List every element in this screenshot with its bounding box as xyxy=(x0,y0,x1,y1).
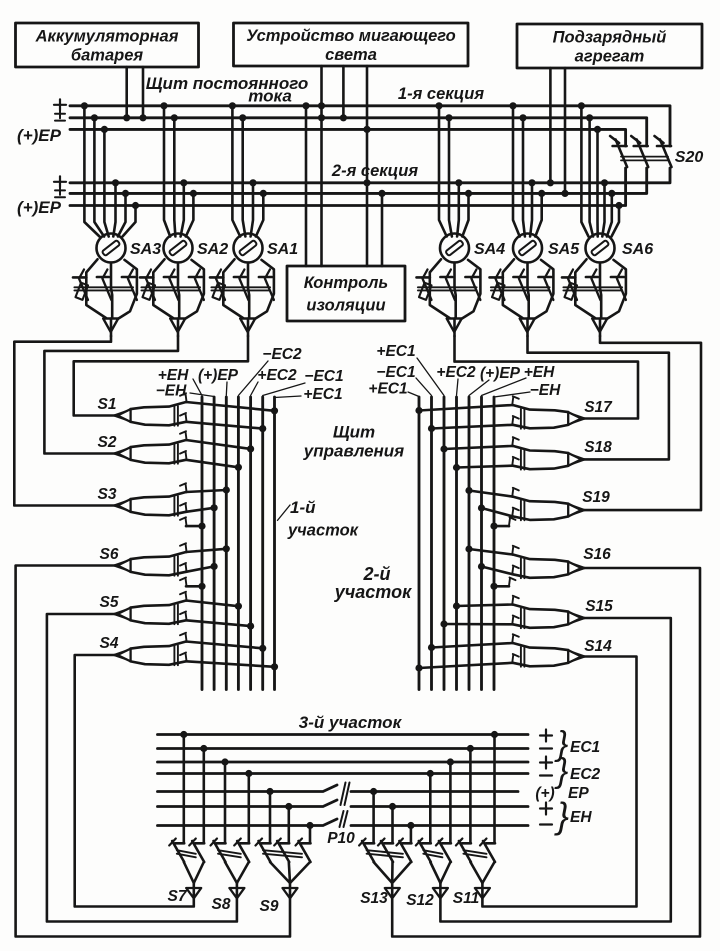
cable mark S16 xyxy=(521,559,525,579)
leader -EC1 left xyxy=(263,383,305,396)
wire S8 pole tap to 3rd-section line 3 xyxy=(221,758,228,842)
label S3 xyxy=(98,486,117,503)
svg-text:3-й участок: 3-й участок xyxy=(299,713,403,732)
svg-text:S16: S16 xyxy=(583,546,611,563)
switch S20 (3-pole changeover between sections) xyxy=(610,136,671,167)
wire SA1 pole 4 from bus y=193 xyxy=(256,190,267,237)
wire S7 pole tap to 3rd-section line 2 xyxy=(200,745,207,843)
feeder arrow S6 xyxy=(114,559,131,572)
leader 1-й участок xyxy=(278,505,291,520)
wire S5 upper conductor to panel bus xyxy=(180,592,242,610)
S11 arrow xyxy=(475,888,490,898)
svg-text:SA5: SA5 xyxy=(548,241,580,258)
svg-text:S8: S8 xyxy=(212,896,231,913)
label SA3 xyxy=(130,241,161,258)
wire SA3 pole 1 from bus y=106 xyxy=(81,102,100,236)
net label +EC2 xyxy=(257,367,297,384)
label (+) EP xyxy=(535,785,589,802)
svg-text:Р10: Р10 xyxy=(327,830,355,847)
wire S12 pole tap to 3rd-section line 3 xyxy=(447,758,454,842)
caption Щит управления xyxy=(303,423,404,461)
wire S9 pole tap to 3rd-section line 7 xyxy=(306,822,313,843)
label S11 xyxy=(453,890,479,907)
wire SA2 pole 4 from bus y=193 xyxy=(186,190,197,237)
label S5 xyxy=(100,594,119,611)
net label -EC1 right xyxy=(376,364,415,381)
leader +EC2 xyxy=(251,382,258,396)
polarity marks EH xyxy=(540,803,552,825)
bus wire: 2nd section panel vertical 1 xyxy=(418,397,421,690)
wire S16 upper conductor to panel bus xyxy=(465,545,518,554)
cable mark S3 xyxy=(174,496,178,516)
S13 pole contact xyxy=(378,839,393,863)
wire S11 outlet xyxy=(482,657,636,907)
cable mark S18 xyxy=(521,450,525,470)
feeder arrow S1 xyxy=(114,409,131,422)
wire SA3 pole 6 from bus y=206 xyxy=(123,202,140,237)
label SA5 xyxy=(548,241,580,258)
svg-text:S7: S7 xyxy=(168,888,188,905)
wire SA3 pole 5 from bus y=193 xyxy=(118,190,129,237)
leader (+)EP xyxy=(225,382,228,396)
selector switch SA1 xyxy=(210,234,274,337)
net label (+)EP section-2 xyxy=(17,198,62,217)
S14 pennant outline xyxy=(513,643,568,666)
leader +EH right xyxy=(482,378,527,396)
wire SA6 pole 4 from bus y=183 xyxy=(601,179,608,236)
bus wire: 1st section panel vertical 1 xyxy=(201,397,204,690)
bus wire: 1st section panel vertical 7 xyxy=(273,397,276,690)
bus wire: 3rd section line 6 (EH +) left segment xyxy=(158,800,338,807)
label S9 xyxy=(260,898,279,915)
wire SA6 pole 6 from bus y=206 xyxy=(612,202,623,237)
net label +EH xyxy=(158,367,189,384)
bus wire: 3rd section line 7 (EH -) left segment xyxy=(158,819,338,826)
net label -EC1 left xyxy=(304,368,343,385)
stub tap on -EH right vertical at y526 xyxy=(490,517,515,529)
wire SA2 pole 2 from bus y=118 xyxy=(171,114,178,236)
bus wire: 2nd section panel vertical 4 xyxy=(455,397,458,690)
wire SA5 pole 4 from bus y=193 xyxy=(535,190,545,237)
bus wire: 3rd section line 5 (EP (+)) left segment xyxy=(158,785,338,792)
wire battery lead 2 to section-1 line 2 xyxy=(139,67,146,121)
bus wire: 3rd section line 3 (EC2 +) xyxy=(158,761,529,764)
label S7 xyxy=(168,888,188,905)
S9 pole contact xyxy=(296,839,311,863)
wire flasher lead 1 down to insulation monitor xyxy=(318,66,325,266)
leader +EC1 right top xyxy=(417,358,444,396)
S7 arrow xyxy=(186,888,201,898)
stub tap on +EH vertical at y586 xyxy=(180,578,206,590)
bus wire: 3rd section line 5 (EP (+)) right segment xyxy=(351,790,518,793)
wire SA6 outlet loop to S19 xyxy=(580,336,701,510)
svg-text:2-й: 2-й xyxy=(363,564,391,584)
S13 funnel xyxy=(367,850,411,883)
svg-text:−ЕС1: −ЕС1 xyxy=(304,368,343,385)
bus wire: 1st section panel vertical 2 xyxy=(213,397,216,690)
svg-text:S9: S9 xyxy=(260,898,279,915)
svg-text:−ЕН: −ЕН xyxy=(156,383,187,400)
svg-text:Подзарядный: Подзарядный xyxy=(553,29,667,47)
leader +EC1 left xyxy=(275,396,302,398)
wire SA3 pole 4 from bus y=183 xyxy=(112,179,119,236)
wire SA5 pole 3 from bus y=183 xyxy=(528,179,535,236)
svg-text:(+): (+) xyxy=(535,785,554,802)
S13 arrow xyxy=(385,888,400,898)
wire S6 upper conductor to panel bus xyxy=(180,543,230,552)
svg-text:Щит: Щит xyxy=(333,423,375,442)
svg-text:SA3: SA3 xyxy=(130,241,161,258)
S12 pole contact xyxy=(436,839,451,863)
leader -EC1 right xyxy=(416,378,432,396)
selector switch SA5 xyxy=(490,234,554,337)
wire flasher lead 3 to insulation monitor xyxy=(363,66,370,266)
net label +EC2 right xyxy=(436,364,476,381)
S7 pole contact xyxy=(189,839,204,863)
bus wire: section-2 line 3 (+)EP, bends up to S20 pole 1 xyxy=(70,168,626,206)
wire SA3 outlet loop to S3 xyxy=(14,336,117,506)
net label +EC1 left xyxy=(303,386,342,403)
caption 2-я секция xyxy=(331,162,418,180)
wire S3 upper conductor to panel bus xyxy=(180,483,230,493)
svg-text:Аккумуляторная: Аккумуляторная xyxy=(35,28,179,46)
S12 arrow xyxy=(433,888,448,898)
wire SA3 pole 3 from bus y=129 xyxy=(101,126,109,237)
caption 3-й участок xyxy=(299,713,403,732)
svg-text:+ЕН: +ЕН xyxy=(158,367,189,384)
svg-text:+ЕС1: +ЕС1 xyxy=(368,381,407,398)
S3 pennant outline xyxy=(131,492,186,515)
svg-text:SA1: SA1 xyxy=(267,241,298,258)
label S13 xyxy=(360,890,388,907)
svg-text:Контроль: Контроль xyxy=(304,274,388,292)
wire S1 upper conductor to panel bus xyxy=(180,393,278,414)
label P10 xyxy=(327,830,355,847)
caption Щит постоянного тока xyxy=(146,74,309,106)
wire S13 outlet xyxy=(392,568,700,937)
bus wire: 3rd section line 2 (EC1 -) xyxy=(158,747,529,750)
label SA2 xyxy=(197,241,228,258)
wire S4 upper conductor to panel bus xyxy=(180,633,266,652)
bus wire: section-1 line 3 (+)EP, bends down to S20 pole 1 xyxy=(70,129,626,146)
leader (+)EP right xyxy=(469,380,489,396)
wire charger lead 1 to section-2 line 1 xyxy=(547,68,554,186)
wire S2 upper conductor to panel bus xyxy=(180,431,254,452)
svg-text:S19: S19 xyxy=(582,489,610,506)
battery box (Аккумуляторная батарея) xyxy=(16,23,199,67)
svg-text:(+)ЕР: (+)ЕР xyxy=(480,365,521,382)
net label +EC1 right top xyxy=(376,343,415,360)
svg-text:управления: управления xyxy=(303,442,404,461)
feeder arrow S4 xyxy=(114,649,131,662)
bus wire: section-2 line 1 (+), bends up to S20 pole 3 xyxy=(70,168,670,183)
wire SA1 outlet loop to S1 xyxy=(74,336,248,416)
svg-text:SA6: SA6 xyxy=(622,241,653,258)
S12 funnel xyxy=(423,850,450,883)
svg-text:SA4: SA4 xyxy=(474,241,505,258)
svg-text:S4: S4 xyxy=(100,635,119,652)
S16 pennant outline xyxy=(513,555,568,578)
label S8 xyxy=(212,896,231,913)
S2 pennant outline xyxy=(131,440,186,463)
S11 pole contact xyxy=(456,839,471,863)
bus wire: section-1 line 2, bends down to S20 pole 2 xyxy=(70,118,647,146)
svg-text:S20: S20 xyxy=(675,149,704,166)
wire S13 pole tap to 3rd-section line 5 xyxy=(370,788,377,843)
selector switch SA6 xyxy=(562,234,626,337)
wire SA4 pole 2 from bus y=118 xyxy=(445,114,452,236)
label S19 xyxy=(582,489,610,506)
wire flasher lead 2 to section-1 line 2 xyxy=(340,66,347,121)
svg-text:S6: S6 xyxy=(100,546,119,563)
disconnect plug P10 bars xyxy=(340,783,350,828)
svg-text:S15: S15 xyxy=(585,598,613,615)
svg-text:S5: S5 xyxy=(100,594,119,611)
wire insulation monitor from section-2 line 2 xyxy=(378,190,385,266)
caption 2-й участок xyxy=(334,564,412,602)
svg-text:}: } xyxy=(554,752,568,790)
svg-text:Устройство мигающего: Устройство мигающего xyxy=(246,27,456,45)
polarity mark + of section-2 line 1 xyxy=(54,176,66,187)
leader -EH right xyxy=(494,392,530,397)
wire S12 outlet xyxy=(440,618,670,922)
svg-text:S12: S12 xyxy=(406,892,434,909)
selector switch SA4 xyxy=(417,234,481,337)
feeder arrow S17 xyxy=(568,412,585,425)
net label (+)EP panel xyxy=(198,367,239,384)
S9 pole contact xyxy=(256,839,271,863)
bus wire: 2nd section panel vertical 2 xyxy=(430,397,433,690)
svg-text:1-я секция: 1-я секция xyxy=(398,85,484,103)
label S20 xyxy=(675,149,704,166)
caption 1-й участок xyxy=(287,498,360,540)
polarity marks EC1 xyxy=(540,730,552,749)
polarity marks EC2 xyxy=(540,757,552,776)
wire S19 lower conductor to panel bus xyxy=(478,504,519,516)
svg-text:+ЕС1: +ЕС1 xyxy=(303,386,342,403)
wire S16 lower conductor to panel bus xyxy=(478,563,519,575)
wire S19 upper conductor to panel bus xyxy=(465,487,518,497)
svg-text:S1: S1 xyxy=(98,396,117,413)
svg-text:(+)ЕР: (+)ЕР xyxy=(198,367,239,384)
wire SA4 pole 4 from bus y=193 xyxy=(462,190,472,237)
stub tap on -EH right vertical at y586 xyxy=(490,578,515,590)
svg-text:батарея: батарея xyxy=(71,47,143,65)
brace and label EC1 xyxy=(554,725,600,763)
svg-text:участок: участок xyxy=(287,522,360,540)
wire S9 pole tap to 3rd-section line 6 xyxy=(285,803,292,843)
label S6 xyxy=(100,546,119,563)
net label -EH right xyxy=(530,382,561,399)
label S15 xyxy=(585,598,613,615)
svg-text:+ЕС1: +ЕС1 xyxy=(376,343,415,360)
svg-text:S13: S13 xyxy=(360,890,388,907)
S11 funnel xyxy=(463,850,494,883)
wire SA5 outlet loop to S18 xyxy=(528,336,669,459)
wire S17 upper conductor to panel bus xyxy=(415,396,518,414)
bus wire: 2nd section panel vertical 5 xyxy=(468,397,471,690)
wire S11 pole tap to 3rd-section line 2 xyxy=(467,745,474,843)
label S16 xyxy=(583,546,611,563)
label S14 xyxy=(584,638,612,655)
wire S3 lower conductor to panel bus xyxy=(180,503,218,512)
wire S14 lower conductor to panel bus xyxy=(415,654,518,672)
wire S7 outlet xyxy=(75,655,194,907)
wire SA2 pole 3 from bus y=183 xyxy=(180,179,187,236)
wire charger lead 2 to section-2 line 2 xyxy=(561,68,568,197)
svg-text:S2: S2 xyxy=(98,434,117,451)
wire SA6 pole 5 from bus y=193 xyxy=(607,190,616,237)
S12 pole contact xyxy=(416,839,431,863)
wire S18 lower conductor to panel bus xyxy=(453,457,519,471)
bus wire: section-2 line 2, bends up to S20 pole 2 xyxy=(70,168,647,193)
wire S17 lower conductor to panel bus xyxy=(428,416,519,432)
svg-text:+ЕН: +ЕН xyxy=(524,364,555,381)
cable mark S2 xyxy=(174,444,178,464)
svg-text:участок: участок xyxy=(334,582,412,602)
wire SA2 pole 1 from bus y=106 xyxy=(160,102,170,236)
S5 pennant outline xyxy=(131,601,186,624)
wire SA2 outlet loop to S2 xyxy=(44,336,178,454)
caption 1-я секция xyxy=(398,85,484,103)
wire S12 pole tap to 3rd-section line 4 xyxy=(427,770,434,843)
svg-text:1-й: 1-й xyxy=(290,498,316,517)
wire S4 lower conductor to panel bus xyxy=(180,653,278,671)
svg-text:SA2: SA2 xyxy=(197,241,228,258)
wire SA4 outlet loop to S17 xyxy=(455,336,639,419)
bus wire: 3rd section line 1 (EC1 +) xyxy=(158,733,529,736)
feeder arrow S19 xyxy=(568,504,585,517)
net label -EH xyxy=(156,383,187,400)
S7 pole contact xyxy=(169,839,184,863)
bus wire: 3rd section line 7 (EH -) right segment xyxy=(351,824,528,827)
net label +EH right xyxy=(524,364,555,381)
wire SA6 pole 1 from bus y=106 xyxy=(578,102,589,236)
label S1 xyxy=(98,396,117,413)
bus wire: 3rd section line 6 (EH +) right segment xyxy=(351,805,528,808)
svg-text:света: света xyxy=(325,46,377,64)
wire SA1 pole 3 from bus y=183 xyxy=(249,179,256,236)
wire SA5 pole 1 from bus y=106 xyxy=(509,102,519,236)
svg-text:S3: S3 xyxy=(98,486,117,503)
svg-text:агрегат: агрегат xyxy=(575,48,645,66)
svg-text:S11: S11 xyxy=(453,890,479,907)
wire SA5 pole 2 from bus y=118 xyxy=(519,114,526,236)
wire S6 lower conductor to panel bus xyxy=(180,563,218,572)
net label -EC2 xyxy=(262,346,302,363)
label S17 xyxy=(584,399,613,416)
cable mark S17 xyxy=(521,409,525,429)
wire SA3 pole 2 from bus y=118 xyxy=(91,114,104,236)
bus wire: 2nd section panel vertical 3 xyxy=(443,397,446,690)
label SA1 xyxy=(267,241,298,258)
wire S15 upper conductor to panel bus xyxy=(453,596,519,610)
S19 pennant outline xyxy=(513,497,568,520)
wire S9 pole tap to 3rd-section line 5 xyxy=(266,788,273,843)
feeder arrow S14 xyxy=(568,650,585,663)
S11 pole contact xyxy=(480,839,495,863)
wire SA6 pole 3 from bus y=129 xyxy=(594,126,601,237)
cable mark S5 xyxy=(174,605,178,625)
wire S13 pole tap to 3rd-section line 7 xyxy=(407,822,414,843)
bus wire: 1st section panel vertical 3 xyxy=(225,397,228,690)
svg-text:+ЕС2: +ЕС2 xyxy=(257,367,297,384)
leader -EC2 xyxy=(238,361,268,396)
label S12 xyxy=(406,892,434,909)
cable mark S4 xyxy=(174,646,178,666)
brace and label EC2 xyxy=(554,752,601,790)
net label +EC1 right lower xyxy=(368,381,407,398)
cable mark S1 xyxy=(174,406,178,426)
wire S13 pole tap to 3rd-section line 6 xyxy=(389,803,396,843)
S15 pennant outline xyxy=(513,605,568,628)
leader +EC2 right xyxy=(457,379,459,396)
wire S7 pole tap to 3rd-section line 1 xyxy=(180,731,187,843)
label S2 xyxy=(98,434,117,451)
wire SA1 pole 1 from bus y=106 xyxy=(229,102,240,236)
charger box (Подзарядный агрегат) xyxy=(517,24,702,68)
S9 pole contact xyxy=(274,839,289,863)
svg-text:ЕН: ЕН xyxy=(570,809,592,826)
svg-text:S14: S14 xyxy=(584,638,612,655)
svg-text:(+)ЕР: (+)ЕР xyxy=(17,126,62,145)
feeder arrow S2 xyxy=(114,447,131,460)
cable mark S15 xyxy=(521,609,525,629)
svg-text:ЕР: ЕР xyxy=(568,785,589,802)
label S4 xyxy=(100,635,119,652)
label SA4 xyxy=(474,241,505,258)
wire S5 lower conductor to panel bus xyxy=(180,612,254,630)
cable mark S19 xyxy=(521,501,525,521)
bus wire: 2nd section panel vertical 7 xyxy=(493,397,496,690)
svg-text:S17: S17 xyxy=(584,399,613,416)
S13 pole contact xyxy=(359,839,374,863)
S17 pennant outline xyxy=(513,405,568,428)
feeder arrow S18 xyxy=(568,453,585,466)
label S18 xyxy=(584,439,612,456)
wire S8 outlet xyxy=(47,614,237,922)
S8 pole contact xyxy=(211,839,226,863)
wire SA1 pole 2 from bus y=118 xyxy=(239,114,246,236)
wire S8 pole tap to 3rd-section line 4 xyxy=(245,770,252,843)
wire SA4 pole 1 from bus y=106 xyxy=(435,102,446,236)
svg-text:−ЕН: −ЕН xyxy=(530,382,561,399)
brace and label EH xyxy=(554,795,592,836)
S13 pole contact xyxy=(396,839,411,863)
polarity mark ± of section-1 line 2 xyxy=(55,109,65,120)
feeder arrow S5 xyxy=(114,608,131,621)
bus wire: 1st section panel vertical 6 xyxy=(261,397,264,690)
S9 funnel xyxy=(263,850,310,883)
S8 funnel xyxy=(218,850,249,883)
wire S1 lower conductor to panel bus xyxy=(180,413,266,432)
polarity mark + of section-1 line 1 xyxy=(54,99,66,110)
selector switch SA2 xyxy=(140,234,204,337)
svg-text:ЕС1: ЕС1 xyxy=(570,739,600,756)
insulation monitor box (Контроль изоляции) xyxy=(287,266,405,321)
S6 pennant outline xyxy=(131,552,186,575)
wire S2 lower conductor to panel bus xyxy=(180,451,242,471)
selector switch SA3 xyxy=(73,234,137,337)
cable mark S6 xyxy=(174,556,178,576)
svg-text:тока: тока xyxy=(248,87,292,106)
svg-text:изоляции: изоляции xyxy=(306,297,385,315)
bus wire: section-1 line 1 (+), bends down to S20 pole 3 xyxy=(70,106,670,146)
wire S11 pole tap to 3rd-section line 1 xyxy=(491,731,498,843)
S9 arrow xyxy=(283,888,298,898)
wire SA6 pole 2 from bus y=118 xyxy=(586,114,593,236)
leader -EH xyxy=(190,393,214,397)
